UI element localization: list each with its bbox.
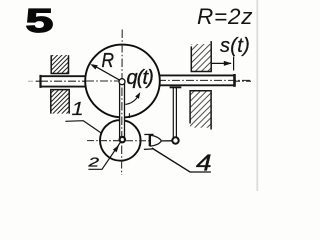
pulley 1 horizontal centerline bbox=[86, 80, 119, 82]
scan artifact right edge bbox=[256, 0, 258, 191]
link from bulb tip to rod pin bbox=[161, 140, 172, 142]
pulley 1 (big circle) bbox=[85, 45, 160, 118]
rotation arrow bbox=[125, 92, 140, 104]
left bearing upper block bbox=[51, 55, 68, 74]
right bearing lower block bbox=[190, 91, 211, 130]
svg-text:2: 2 bbox=[87, 155, 99, 169]
pulley 2 (small circle) bbox=[100, 120, 141, 161]
vertical rod 4 with T-cap bbox=[170, 87, 182, 138]
svg-text:s(t): s(t) bbox=[220, 35, 250, 57]
svg-text:5: 5 bbox=[26, 2, 54, 39]
clamp jaws (element on pulley 2 rim) bbox=[144, 134, 162, 149]
label 1 with leader bbox=[65, 99, 101, 133]
pin joint on rod 4 bbox=[172, 137, 178, 143]
left bearing lower block bbox=[51, 90, 69, 114]
tangency tick mark bbox=[128, 113, 130, 118]
vertical centerline bbox=[121, 30, 124, 176]
right shaft segment bbox=[158, 74, 251, 87]
problem number 5 bbox=[26, 2, 54, 39]
svg-text:R: R bbox=[102, 50, 115, 73]
pin at pulley 2 center bbox=[120, 137, 125, 142]
shaft axis centerline bbox=[36, 80, 251, 82]
svg-text:R=2z: R=2z bbox=[197, 4, 253, 29]
pointed bulb bbox=[150, 135, 161, 146]
connecting rod (slider) bbox=[120, 80, 125, 139]
label 4 with leader bbox=[152, 148, 212, 176]
svg-text:q(t): q(t) bbox=[127, 67, 154, 89]
left shaft segment bbox=[39, 75, 87, 88]
label 2 with arrow leader bbox=[87, 143, 120, 170]
pulley 2 horizontal centerline bbox=[87, 140, 151, 142]
right bearing upper block bbox=[191, 41, 211, 71]
radius R arrow bbox=[90, 64, 120, 80]
s(t) displacement arrow bbox=[211, 57, 233, 71]
svg-text:1: 1 bbox=[72, 99, 84, 119]
hub cap on pulley 1 center bbox=[119, 79, 125, 85]
